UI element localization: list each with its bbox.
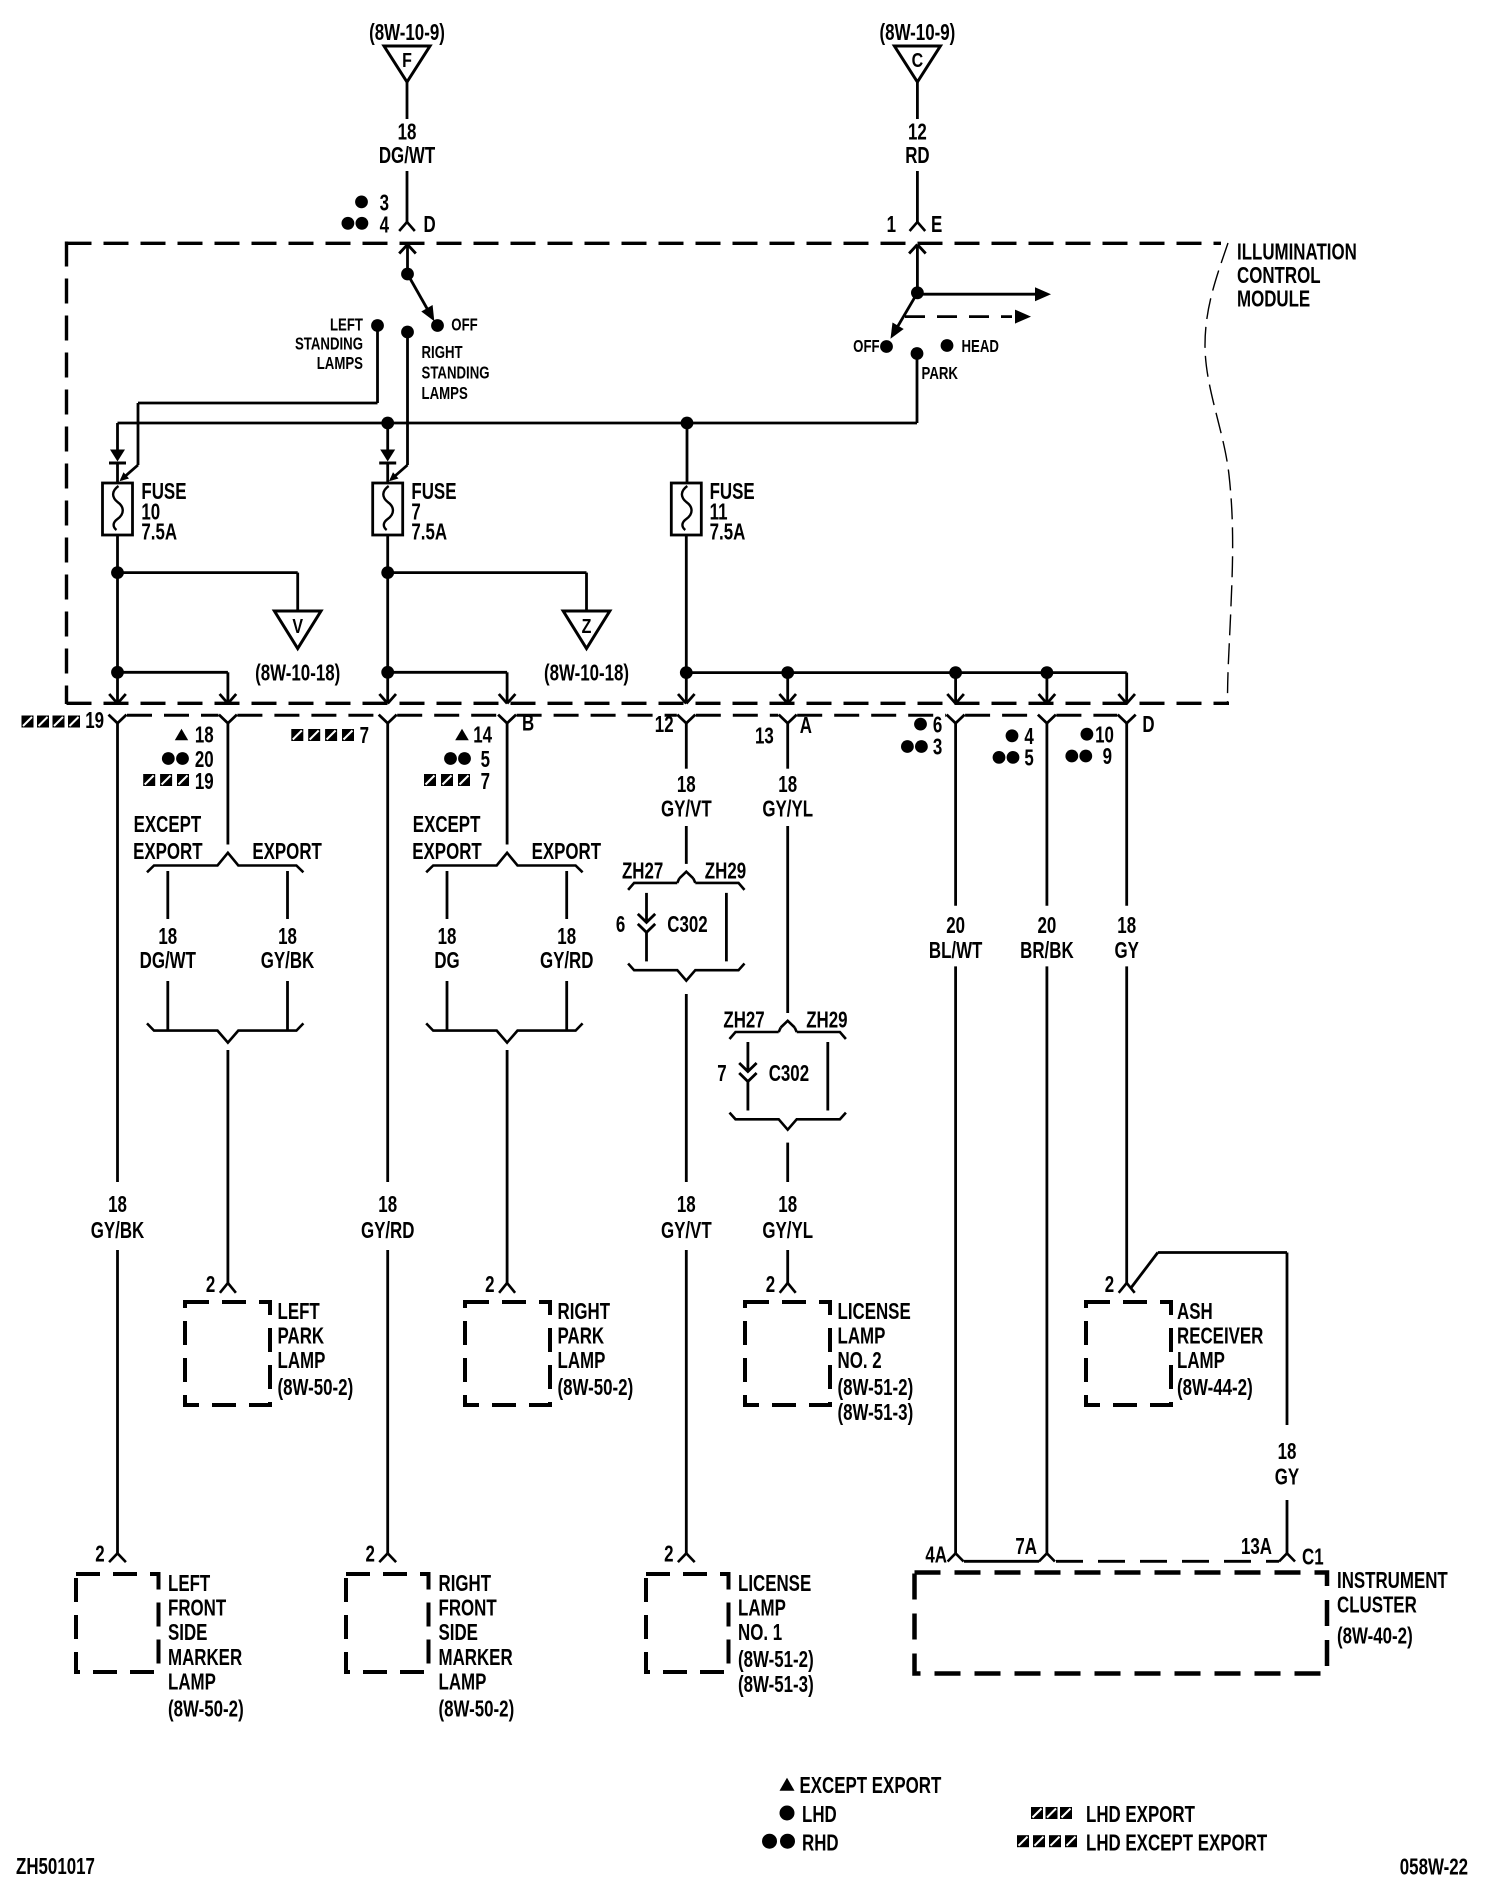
svg-text:18: 18	[108, 1193, 127, 1218]
svg-text:2: 2	[485, 1273, 494, 1298]
svg-text:2: 2	[1105, 1273, 1114, 1298]
svg-text:EXPORT: EXPORT	[532, 840, 602, 865]
svg-text:(8W-10-18): (8W-10-18)	[255, 661, 340, 686]
svg-text:7.5A: 7.5A	[141, 520, 177, 545]
svg-text:19: 19	[195, 769, 214, 794]
svg-text:18: 18	[1117, 914, 1136, 939]
svg-text:RECEIVER: RECEIVER	[1177, 1324, 1264, 1349]
svg-text:OFF: OFF	[853, 337, 880, 356]
svg-text:LAMP: LAMP	[278, 1349, 326, 1374]
svg-text:7: 7	[481, 769, 490, 794]
svg-text:LHD EXCEPT EXPORT: LHD EXCEPT EXPORT	[1086, 1831, 1268, 1856]
svg-text:CONTROL: CONTROL	[1237, 263, 1321, 288]
svg-text:GY/RD: GY/RD	[361, 1219, 415, 1244]
svg-text:7: 7	[717, 1062, 726, 1087]
svg-text:D: D	[424, 213, 436, 238]
svg-text:1: 1	[887, 213, 896, 238]
svg-text:(8W-44-2): (8W-44-2)	[1177, 1376, 1253, 1401]
svg-text:RD: RD	[905, 144, 929, 169]
svg-text:LAMP: LAMP	[558, 1349, 606, 1374]
svg-text:DG/WT: DG/WT	[379, 144, 436, 169]
svg-text:LHD: LHD	[802, 1803, 837, 1828]
svg-text:(8W-51-3): (8W-51-3)	[738, 1672, 814, 1697]
svg-text:EXCEPT: EXCEPT	[134, 813, 202, 838]
svg-text:RIGHT: RIGHT	[422, 343, 463, 362]
svg-text:PARK: PARK	[558, 1324, 605, 1349]
svg-text:LAMP: LAMP	[439, 1670, 487, 1695]
svg-text:LAMP: LAMP	[168, 1670, 216, 1695]
svg-text:(8W-50-2): (8W-50-2)	[168, 1697, 244, 1722]
svg-text:2: 2	[366, 1542, 375, 1567]
svg-text:13A: 13A	[1241, 1535, 1272, 1560]
svg-text:GY/YL: GY/YL	[762, 797, 813, 822]
svg-text:(8W-51-2): (8W-51-2)	[738, 1648, 814, 1673]
svg-text:OFF: OFF	[451, 316, 478, 335]
svg-text:18: 18	[278, 925, 297, 950]
svg-text:18: 18	[438, 925, 457, 950]
svg-text:EXCEPT EXPORT: EXCEPT EXPORT	[800, 1774, 942, 1799]
svg-text:INSTRUMENT: INSTRUMENT	[1337, 1569, 1448, 1594]
svg-text:BR/BK: BR/BK	[1020, 939, 1074, 964]
svg-text:(8W-51-3): (8W-51-3)	[838, 1400, 914, 1425]
svg-text:(8W-10-18): (8W-10-18)	[544, 661, 629, 686]
svg-text:LAMP: LAMP	[838, 1324, 886, 1349]
svg-text:EXCEPT: EXCEPT	[413, 813, 481, 838]
svg-text:GY/VT: GY/VT	[661, 797, 712, 822]
svg-text:LEFT: LEFT	[278, 1300, 321, 1325]
svg-text:EXPORT: EXPORT	[412, 840, 482, 865]
svg-text:LEFT: LEFT	[168, 1572, 211, 1597]
svg-text:GY/BK: GY/BK	[91, 1219, 145, 1244]
svg-text:(8W-50-2): (8W-50-2)	[439, 1697, 515, 1722]
svg-text:MARKER: MARKER	[168, 1645, 243, 1670]
svg-text:(8W-10-9): (8W-10-9)	[369, 21, 445, 46]
svg-text:14: 14	[473, 723, 492, 748]
svg-text:FRONT: FRONT	[168, 1596, 227, 1621]
svg-text:HEAD: HEAD	[962, 337, 999, 356]
svg-text:2: 2	[766, 1273, 775, 1298]
svg-text:E: E	[931, 213, 942, 238]
svg-text:EXPORT: EXPORT	[252, 840, 322, 865]
svg-text:18: 18	[398, 120, 417, 145]
svg-text:18: 18	[195, 723, 214, 748]
svg-text:SIDE: SIDE	[168, 1621, 207, 1646]
svg-text:FRONT: FRONT	[439, 1596, 498, 1621]
svg-text:12: 12	[655, 713, 674, 738]
svg-text:6: 6	[616, 913, 625, 938]
svg-text:ZH27: ZH27	[622, 859, 663, 884]
svg-text:18: 18	[778, 1193, 797, 1218]
svg-text:NO. 2: NO. 2	[838, 1349, 882, 1374]
svg-text:LAMPS: LAMPS	[422, 384, 468, 403]
svg-text:(8W-50-2): (8W-50-2)	[558, 1376, 634, 1401]
svg-text:LICENSE: LICENSE	[838, 1300, 911, 1325]
svg-text:PARK: PARK	[278, 1324, 325, 1349]
svg-text:Z: Z	[582, 616, 592, 638]
svg-text:STANDING: STANDING	[422, 364, 490, 383]
svg-text:GY/BK: GY/BK	[261, 948, 315, 973]
svg-text:058W-22: 058W-22	[1400, 1855, 1468, 1880]
svg-text:19: 19	[85, 709, 104, 734]
svg-text:BL/WT: BL/WT	[929, 939, 983, 964]
svg-text:MODULE: MODULE	[1237, 287, 1310, 312]
svg-text:RIGHT: RIGHT	[439, 1572, 492, 1597]
svg-text:D: D	[1142, 713, 1154, 738]
svg-text:NO. 1: NO. 1	[738, 1621, 782, 1646]
svg-text:SIDE: SIDE	[439, 1621, 478, 1646]
svg-text:18: 18	[378, 1193, 397, 1218]
svg-text:LEFT: LEFT	[330, 316, 363, 335]
svg-text:18: 18	[158, 925, 177, 950]
svg-text:RHD: RHD	[802, 1831, 839, 1856]
svg-text:7A: 7A	[1015, 1535, 1037, 1560]
svg-text:GY/RD: GY/RD	[540, 948, 594, 973]
svg-text:LICENSE: LICENSE	[738, 1572, 811, 1597]
svg-text:C302: C302	[667, 913, 707, 938]
svg-text:18: 18	[677, 1193, 696, 1218]
svg-text:3: 3	[933, 735, 942, 760]
svg-text:B: B	[522, 711, 534, 736]
svg-text:4: 4	[380, 213, 390, 238]
svg-text:(8W-10-9): (8W-10-9)	[880, 21, 956, 46]
svg-text:20: 20	[946, 914, 965, 939]
svg-text:(8W-50-2): (8W-50-2)	[278, 1376, 354, 1401]
svg-text:18: 18	[677, 773, 696, 798]
svg-text:20: 20	[1038, 914, 1057, 939]
svg-text:(8W-51-2): (8W-51-2)	[838, 1376, 914, 1401]
svg-text:LAMPS: LAMPS	[317, 354, 363, 373]
svg-text:RIGHT: RIGHT	[558, 1300, 611, 1325]
svg-text:ZH501017: ZH501017	[16, 1855, 95, 1880]
svg-text:GY/VT: GY/VT	[661, 1219, 712, 1244]
svg-text:18: 18	[1278, 1440, 1297, 1465]
svg-text:F: F	[402, 50, 412, 72]
svg-text:ZH27: ZH27	[723, 1008, 764, 1033]
svg-text:18: 18	[557, 925, 576, 950]
svg-text:C: C	[912, 50, 924, 72]
svg-text:(8W-40-2): (8W-40-2)	[1337, 1624, 1413, 1649]
svg-text:A: A	[800, 714, 813, 739]
svg-text:LAMP: LAMP	[1177, 1349, 1225, 1374]
svg-text:ASH: ASH	[1177, 1300, 1213, 1325]
svg-text:GY/YL: GY/YL	[762, 1219, 813, 1244]
svg-text:2: 2	[206, 1273, 215, 1298]
svg-text:2: 2	[664, 1542, 673, 1567]
svg-text:4A: 4A	[925, 1543, 947, 1568]
svg-text:7.5A: 7.5A	[710, 520, 746, 545]
svg-text:ZH29: ZH29	[705, 859, 746, 884]
svg-text:7: 7	[360, 724, 369, 749]
svg-text:6: 6	[933, 713, 942, 738]
svg-text:LAMP: LAMP	[738, 1596, 786, 1621]
svg-text:18: 18	[778, 773, 797, 798]
svg-text:EXPORT: EXPORT	[133, 840, 203, 865]
svg-text:C302: C302	[769, 1062, 809, 1087]
svg-text:MARKER: MARKER	[439, 1645, 514, 1670]
svg-text:13: 13	[755, 724, 774, 749]
svg-text:GY: GY	[1114, 939, 1139, 964]
svg-text:ILLUMINATION: ILLUMINATION	[1237, 240, 1357, 265]
svg-text:ZH29: ZH29	[806, 1008, 847, 1033]
svg-text:9: 9	[1103, 745, 1112, 770]
svg-text:LHD EXPORT: LHD EXPORT	[1086, 1803, 1195, 1828]
svg-text:12: 12	[908, 120, 927, 145]
svg-text:7.5A: 7.5A	[411, 520, 447, 545]
svg-text:C1: C1	[1302, 1545, 1324, 1570]
svg-text:PARK: PARK	[922, 364, 959, 383]
svg-text:CLUSTER: CLUSTER	[1337, 1593, 1417, 1618]
svg-text:GY: GY	[1275, 1465, 1300, 1490]
svg-text:DG/WT: DG/WT	[140, 948, 197, 973]
svg-text:5: 5	[1024, 746, 1033, 771]
svg-text:DG: DG	[434, 948, 459, 973]
svg-text:STANDING: STANDING	[295, 335, 363, 354]
svg-text:2: 2	[95, 1542, 104, 1567]
svg-text:V: V	[292, 616, 303, 638]
